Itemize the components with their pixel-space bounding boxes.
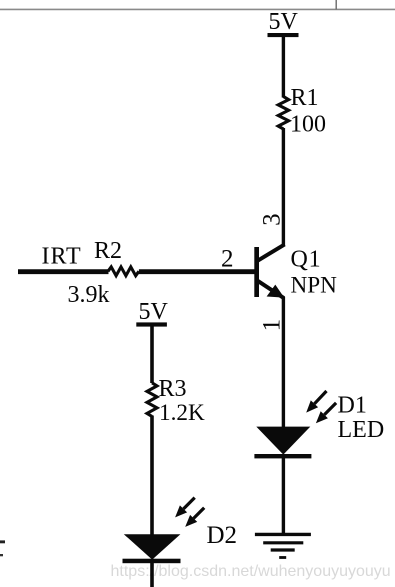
wire Q1 emitter to D1 <box>282 297 285 428</box>
LED D2 arrow (lower) <box>194 508 205 519</box>
transistor Q1 emitter lead <box>257 281 284 299</box>
svg-text:R1: R1 <box>291 85 319 111</box>
svg-text:R2: R2 <box>94 238 122 264</box>
svg-text:Q1: Q1 <box>291 246 322 272</box>
wire IRT to R2 <box>18 269 109 274</box>
transistor Q1 base bar <box>254 247 259 297</box>
svg-text:LED: LED <box>338 417 385 443</box>
transistor Q1 emitter arrowhead <box>267 285 285 298</box>
ground symbol line 2 <box>263 541 303 544</box>
LED D1 arrow (upper) <box>314 391 326 404</box>
svg-text:1.2K: 1.2K <box>159 400 205 426</box>
svg-text:IRT: IRT <box>42 244 82 270</box>
wire 5V bar to R3 <box>150 326 154 383</box>
svg-text:2: 2 <box>221 245 234 272</box>
svg-text:1: 1 <box>258 319 285 332</box>
ground symbol line 1 <box>255 533 311 536</box>
svg-text:100: 100 <box>290 112 326 138</box>
power bar VCC (top) <box>268 33 299 37</box>
LED D1 cathode bar <box>254 454 311 458</box>
wire 5V bar to R1 <box>282 36 285 98</box>
LED D2 arrow (upper) <box>184 498 195 509</box>
wire R2 to Q1 base <box>139 269 256 274</box>
wire R1 to Q1 collector <box>282 128 285 246</box>
svg-text:D2: D2 <box>207 522 238 549</box>
svg-text:3.9k: 3.9k <box>68 282 110 308</box>
resistor R3 <box>147 383 157 417</box>
wire R3 to D2 <box>150 416 154 537</box>
transistor Q1 collector lead <box>257 244 284 261</box>
ground symbol line 4 <box>279 556 286 559</box>
power bar VCC (second) <box>136 322 167 326</box>
svg-text:R3: R3 <box>159 376 187 402</box>
wire D1 to ground <box>282 458 285 534</box>
LED D1 triangle <box>256 427 310 455</box>
LED D2 cathode bar <box>123 559 181 564</box>
ground symbol line 3 <box>271 548 295 551</box>
resistor R1 <box>278 97 288 130</box>
svg-text:5V: 5V <box>269 9 299 35</box>
LED D2 triangle <box>124 534 181 559</box>
wire D2 to bottom edge <box>150 562 154 587</box>
svg-text:D1: D1 <box>338 393 367 419</box>
svg-text:5V: 5V <box>139 299 169 325</box>
resistor R2 <box>108 267 139 276</box>
svg-text:NPN: NPN <box>291 273 338 299</box>
LED D1 arrow (lower) <box>324 403 336 415</box>
svg-text:3: 3 <box>258 213 285 226</box>
